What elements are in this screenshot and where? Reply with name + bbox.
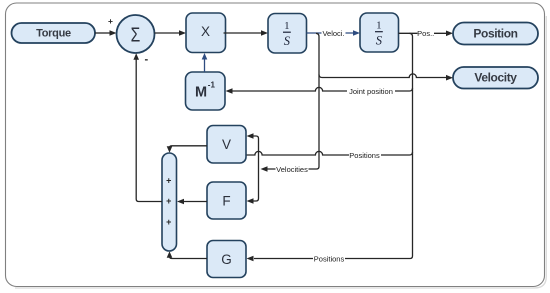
svg-text:Velocity: Velocity — [474, 71, 517, 85]
svg-text:S: S — [376, 34, 383, 48]
svg-text:F: F — [222, 194, 230, 209]
block G — [207, 241, 246, 278]
wire velocity branch to Velocity stadium with hop over x=413 — [319, 74, 447, 78]
svg-text:+: + — [166, 196, 171, 206]
svg-text:+: + — [108, 16, 113, 26]
node: velocities distribution vertical x=258.5 feeding V and F — [254, 136, 259, 201]
svg-text:-1: -1 — [208, 81, 216, 90]
arrowhead into G — [247, 256, 254, 262]
svg-text:Positions: Positions — [314, 255, 345, 264]
minus sign at summer feedback input — [145, 54, 149, 66]
arrowhead into Position — [446, 31, 453, 37]
block Torque (input stadium) — [12, 23, 96, 43]
arrowhead into Velocity — [446, 75, 453, 81]
block V — [207, 126, 246, 164]
plus sign at summer input — [108, 16, 113, 26]
arrowhead into F right side — [247, 198, 254, 204]
label Positions (V feed) — [349, 151, 381, 160]
arrowhead into X — [179, 30, 186, 36]
wire integrator1 to integrator2 (navy) — [307, 32, 355, 34]
svg-text:1: 1 — [284, 20, 290, 32]
svg-text:Positions: Positions — [349, 151, 380, 160]
label Pos.. — [417, 29, 434, 38]
svg-text:G: G — [221, 252, 232, 267]
arrowhead into integrator1 — [261, 30, 268, 36]
arrowhead velocities into node x=258.5 — [261, 166, 268, 172]
svg-text:M: M — [195, 84, 207, 100]
wire X to integrator1 — [224, 32, 263, 34]
node: velocity tap vertical line x=319 — [267, 33, 319, 169]
svg-text:Torque: Torque — [36, 28, 71, 40]
svg-text:S: S — [284, 34, 291, 48]
wire summer to X — [155, 32, 181, 34]
block F — [207, 182, 246, 219]
svg-text:X: X — [201, 24, 210, 39]
arrowhead into M inverse — [226, 88, 233, 94]
wire G output to capsule bottom — [170, 257, 208, 259]
svg-text:V: V — [222, 137, 231, 152]
node: position tap vertical line x=412.5 down to G feed — [254, 33, 413, 258]
wire Torque to summer — [95, 32, 111, 34]
summer (sigma circle) — [117, 15, 155, 53]
arrowhead into capsule right — [177, 199, 184, 205]
wire M inverse to X (navy, upward) — [204, 59, 206, 73]
label Velocities — [276, 165, 309, 174]
svg-text:Velocities: Velocities — [276, 165, 308, 174]
arrowhead into V right side — [247, 133, 254, 139]
arrowhead into X bottom — [202, 53, 208, 60]
block M inverse — [186, 72, 226, 110]
svg-text:1: 1 — [376, 19, 382, 31]
wire F output to capsule right — [184, 201, 207, 203]
block Velocity (output stadium) — [453, 67, 538, 89]
arrowhead into summer bottom — [133, 53, 139, 60]
svg-text:Veloci.: Veloci. — [322, 29, 344, 38]
integrator block 1/S (second) — [360, 13, 399, 52]
svg-text:Position: Position — [473, 27, 517, 41]
summing capsule (+ + +) — [162, 153, 177, 251]
label Joint position — [347, 87, 395, 96]
block Position (output stadium) — [453, 23, 538, 45]
wire capsule output to summer minus input — [136, 59, 162, 202]
wire positions feed to V (y=155) with hops over x=319 and x=258.5 — [246, 151, 413, 155]
svg-text:Joint position: Joint position — [349, 87, 393, 96]
wire integrator2 to Position — [399, 32, 447, 34]
arrowhead into capsule top — [167, 146, 173, 153]
wire V output to capsule top — [170, 146, 208, 148]
svg-text:-: - — [145, 54, 149, 66]
arrowhead into summer — [110, 30, 117, 36]
integrator block 1/S (first) — [268, 14, 307, 54]
arrowhead into integrator2 — [353, 30, 360, 36]
svg-text:+: + — [166, 217, 171, 227]
arrowhead into capsule bottom — [167, 251, 173, 258]
svg-text:+: + — [166, 176, 171, 186]
label Veloci. — [322, 29, 346, 38]
wire joint position (to M inverse) with hop over x=319 — [232, 87, 413, 91]
label Positions (bottom G feed) — [313, 255, 345, 264]
svg-text:Pos..: Pos.. — [417, 29, 434, 38]
block X (multiplier) — [186, 13, 226, 53]
svg-text:Σ: Σ — [131, 23, 141, 45]
